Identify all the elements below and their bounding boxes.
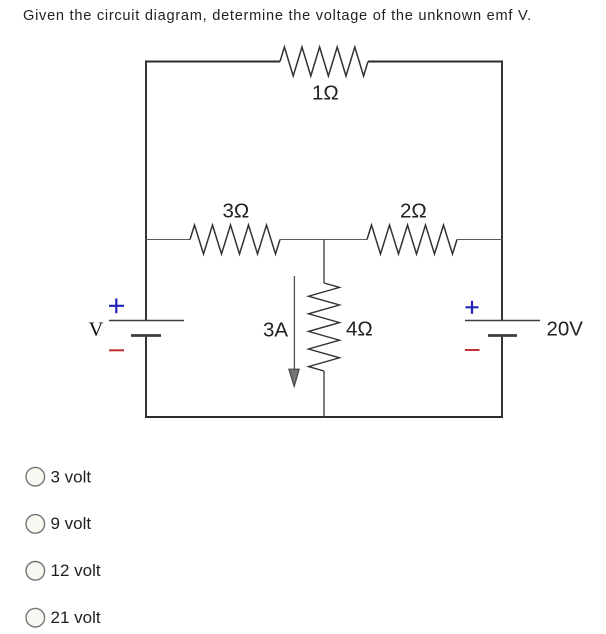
wire: bottom side xyxy=(145,416,503,418)
svg-text:20V: 20V xyxy=(547,318,584,341)
radio option 2 circle xyxy=(26,515,45,534)
svg-text:Given the circuit diagram, det: Given the circuit diagram, determine the… xyxy=(23,8,532,24)
svg-text:9 volt: 9 volt xyxy=(51,514,92,533)
wire: middle rail right segment xyxy=(457,239,502,241)
svg-text:12 volt: 12 volt xyxy=(51,561,101,580)
current arrow 3A head xyxy=(289,369,299,386)
wire: center branch upper (junction down to R4) xyxy=(323,240,325,284)
battery 20V minus sign xyxy=(465,349,480,351)
svg-text:3A: 3A xyxy=(263,318,288,341)
wire: middle rail center segment (node between R2 and R3) xyxy=(280,239,367,241)
svg-text:2Ω: 2Ω xyxy=(400,200,427,223)
battery 20V long plus plate xyxy=(465,320,540,322)
wire: right side lower (battery 20V minus plate down to bottom corner) xyxy=(501,336,503,419)
resistor R1 1ohm (top) xyxy=(280,47,368,76)
radio option 4 circle xyxy=(26,608,45,627)
battery V short minus plate xyxy=(131,334,161,337)
svg-text:3Ω: 3Ω xyxy=(223,199,250,222)
resistor R3 2ohm (middle right) xyxy=(367,225,457,254)
current arrow 3A shaft xyxy=(293,276,295,369)
radio option 3 circle xyxy=(26,562,45,581)
svg-text:4Ω: 4Ω xyxy=(346,318,373,341)
battery V long plus plate xyxy=(109,320,184,322)
battery 20V plus sign xyxy=(466,301,479,314)
radio option 1 circle xyxy=(26,467,45,486)
battery 20V short minus plate xyxy=(488,334,517,337)
wire: center branch lower (R4 down to bottom wire) xyxy=(323,371,325,417)
resistor R4 4ohm (vertical) xyxy=(309,283,340,371)
svg-text:3 volt: 3 volt xyxy=(51,467,92,486)
svg-text:1Ω: 1Ω xyxy=(312,81,339,104)
wire: right side upper (top corner down to battery 20V plus plate) xyxy=(501,61,503,321)
wire: left side lower (battery V minus plate down to bottom corner) xyxy=(145,336,147,419)
wire: top side (left of R1) xyxy=(145,61,280,63)
wire: middle rail left segment xyxy=(146,239,190,241)
battery V minus sign xyxy=(109,349,124,351)
svg-text:V: V xyxy=(89,319,104,341)
svg-text:21 volt: 21 volt xyxy=(51,608,101,627)
wire: left side upper (top corner down to battery V plus plate) xyxy=(145,61,147,321)
battery V plus sign xyxy=(109,299,124,314)
resistor R2 3ohm (middle left) xyxy=(190,225,280,254)
wire: top side (right of R1) xyxy=(368,61,503,63)
